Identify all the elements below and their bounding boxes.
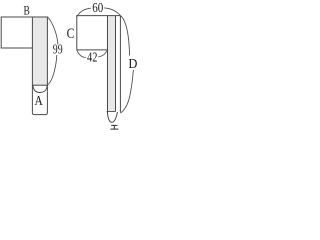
container C rectangle [77, 16, 121, 50]
dimension curve D upper segment [120, 16, 129, 56]
svg-text:D: D [128, 56, 137, 71]
container B rectangle [1, 17, 32, 48]
mercury bottom line (right tube) [107, 111, 116, 113]
right tube inner wall [115, 16, 117, 112]
rounded closed bottom of right tube [107, 112, 117, 123]
right tube left wall [107, 16, 109, 112]
dimension arc 60 right segment [104, 8, 120, 16]
svg-text:A: A [34, 93, 43, 108]
dimension curve 99 lower segment [47, 55, 57, 85]
top edge over tube [32, 16, 47, 18]
svg-text:C: C [67, 26, 75, 42]
svg-text:99: 99 [53, 43, 63, 58]
stand symbol below right tube [110, 125, 118, 129]
right tube gray fill [108, 16, 116, 112]
left tube outline [32, 17, 47, 115]
mercury surface line (left tube) [32, 84, 47, 86]
dimension arc 60 left segment [77, 8, 91, 17]
dimension curve D lower segment [121, 70, 134, 113]
gas column gray fill (left tube upper part) [32, 17, 47, 85]
dimension arc 42 right segment [98, 50, 107, 57]
right tube outer right wall [119, 16, 121, 113]
svg-text:42: 42 [87, 51, 97, 66]
svg-text:B: B [24, 3, 31, 18]
meniscus dome (left tube) [33, 85, 47, 92]
svg-text:60: 60 [92, 1, 103, 16]
dimension arc 42 left segment [77, 50, 86, 58]
dimension curve 99 upper segment [48, 17, 58, 45]
